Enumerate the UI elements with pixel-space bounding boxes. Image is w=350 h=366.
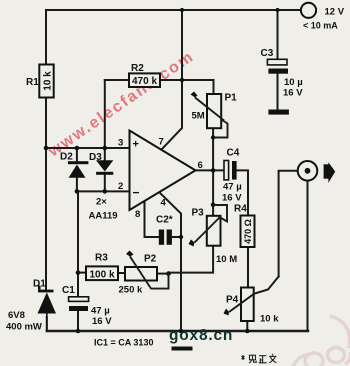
svg-text:16 V: 16 V [222, 193, 242, 204]
svg-text:470 Ω: 470 Ω [243, 219, 253, 244]
svg-text:2×: 2× [96, 197, 107, 208]
svg-text:10 M: 10 M [216, 254, 237, 265]
svg-text:12 V: 12 V [325, 7, 345, 18]
svg-text:47 µ: 47 µ [223, 182, 242, 193]
svg-text:10 k: 10 k [260, 314, 279, 325]
svg-text:P1: P1 [225, 93, 238, 104]
svg-text:−: − [133, 186, 140, 200]
svg-text:IC1 = CA 3130: IC1 = CA 3130 [94, 338, 153, 348]
svg-text:6: 6 [198, 160, 203, 171]
svg-text:P3: P3 [192, 208, 205, 219]
svg-text:D3: D3 [89, 152, 102, 163]
svg-text:400 mW: 400 mW [6, 322, 42, 333]
svg-text:10 µ: 10 µ [284, 77, 303, 88]
svg-text:AA119: AA119 [89, 211, 118, 222]
svg-text:C2*: C2* [156, 215, 173, 226]
svg-text:2: 2 [118, 181, 123, 192]
svg-text:100 k: 100 k [89, 269, 114, 280]
svg-text:10 k: 10 k [43, 71, 54, 91]
svg-text:16 V: 16 V [92, 316, 112, 327]
svg-text:C3: C3 [261, 48, 274, 59]
svg-text:R3: R3 [95, 253, 108, 264]
svg-text:gox8.cn: gox8.cn [169, 327, 233, 344]
svg-text:R4: R4 [234, 204, 247, 215]
svg-text:C4: C4 [227, 148, 240, 159]
svg-text:R2: R2 [131, 63, 144, 74]
svg-text:4: 4 [161, 198, 167, 209]
svg-text:7: 7 [159, 137, 164, 148]
svg-text:P4: P4 [226, 295, 239, 306]
svg-text:470 k: 470 k [132, 76, 157, 87]
svg-text:6V8: 6V8 [8, 310, 25, 321]
svg-text:16 V: 16 V [283, 88, 303, 99]
svg-text:C1: C1 [62, 285, 75, 296]
svg-text:+: + [133, 139, 139, 151]
svg-text:P2: P2 [144, 254, 157, 265]
svg-text:R1: R1 [26, 77, 39, 88]
svg-text:47 µ: 47 µ [91, 306, 110, 317]
svg-text:< 10 mA: < 10 mA [303, 21, 338, 31]
svg-text:3: 3 [118, 138, 123, 149]
svg-text:D1: D1 [33, 279, 46, 290]
svg-text:5M: 5M [192, 111, 205, 122]
svg-text:8: 8 [135, 209, 140, 220]
svg-text:250 k: 250 k [119, 285, 143, 296]
svg-text:D2: D2 [60, 152, 73, 163]
